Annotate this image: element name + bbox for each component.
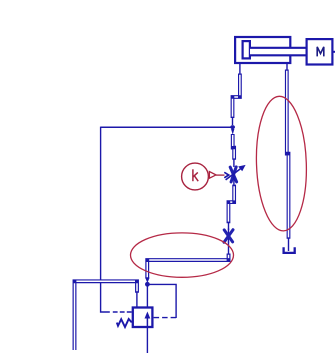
tank symbol (284, 247, 295, 253)
pilot dashed line left into relief valve (113, 311, 132, 313)
wire left pressure-sense line down to relief valve pilot (101, 127, 110, 312)
cylinder body (235, 37, 290, 63)
signal blue arrow into valve (225, 173, 229, 178)
relief valve body (133, 308, 153, 328)
piston (243, 41, 250, 58)
wire below X1 through jog to X2 (228, 174, 234, 230)
relief valve spring (117, 319, 132, 327)
signal open triangle from k (209, 172, 216, 179)
node junction dot 2 with down arrow (145, 278, 150, 287)
mass label M (317, 47, 324, 57)
node junction dot with down arrow (230, 125, 235, 135)
highlight ellipse lower (131, 233, 234, 277)
wire from junction down to variable throttle (233, 134, 234, 167)
wire junction2 to relief valve top (146, 285, 148, 307)
relief valve internal arrow (145, 312, 151, 328)
wire horizontal branch at y=127 (101, 126, 233, 128)
gain circle k (182, 163, 209, 190)
variable throttle valve X1 (230, 167, 236, 182)
mass right stub (333, 51, 335, 53)
piston rod (250, 48, 307, 56)
fixed throttle valve X2 (224, 229, 233, 243)
tank return line below relief valve (146, 328, 148, 353)
wire left port double-line from cylinder down with jog (233, 64, 240, 126)
wire from X2 down-left to relief valve junction (147, 242, 228, 279)
mass block M (307, 39, 333, 64)
pilot dashed line right into relief valve (154, 317, 177, 319)
highlight ellipse tall right (254, 96, 308, 232)
variable throttle arrow diagonal (226, 165, 246, 180)
pump supply double line U from bottom edge (75, 281, 138, 350)
signal line red (216, 174, 225, 176)
pilot line right loop (147, 284, 176, 318)
wire right port double line from cylinder to tank (287, 64, 289, 252)
